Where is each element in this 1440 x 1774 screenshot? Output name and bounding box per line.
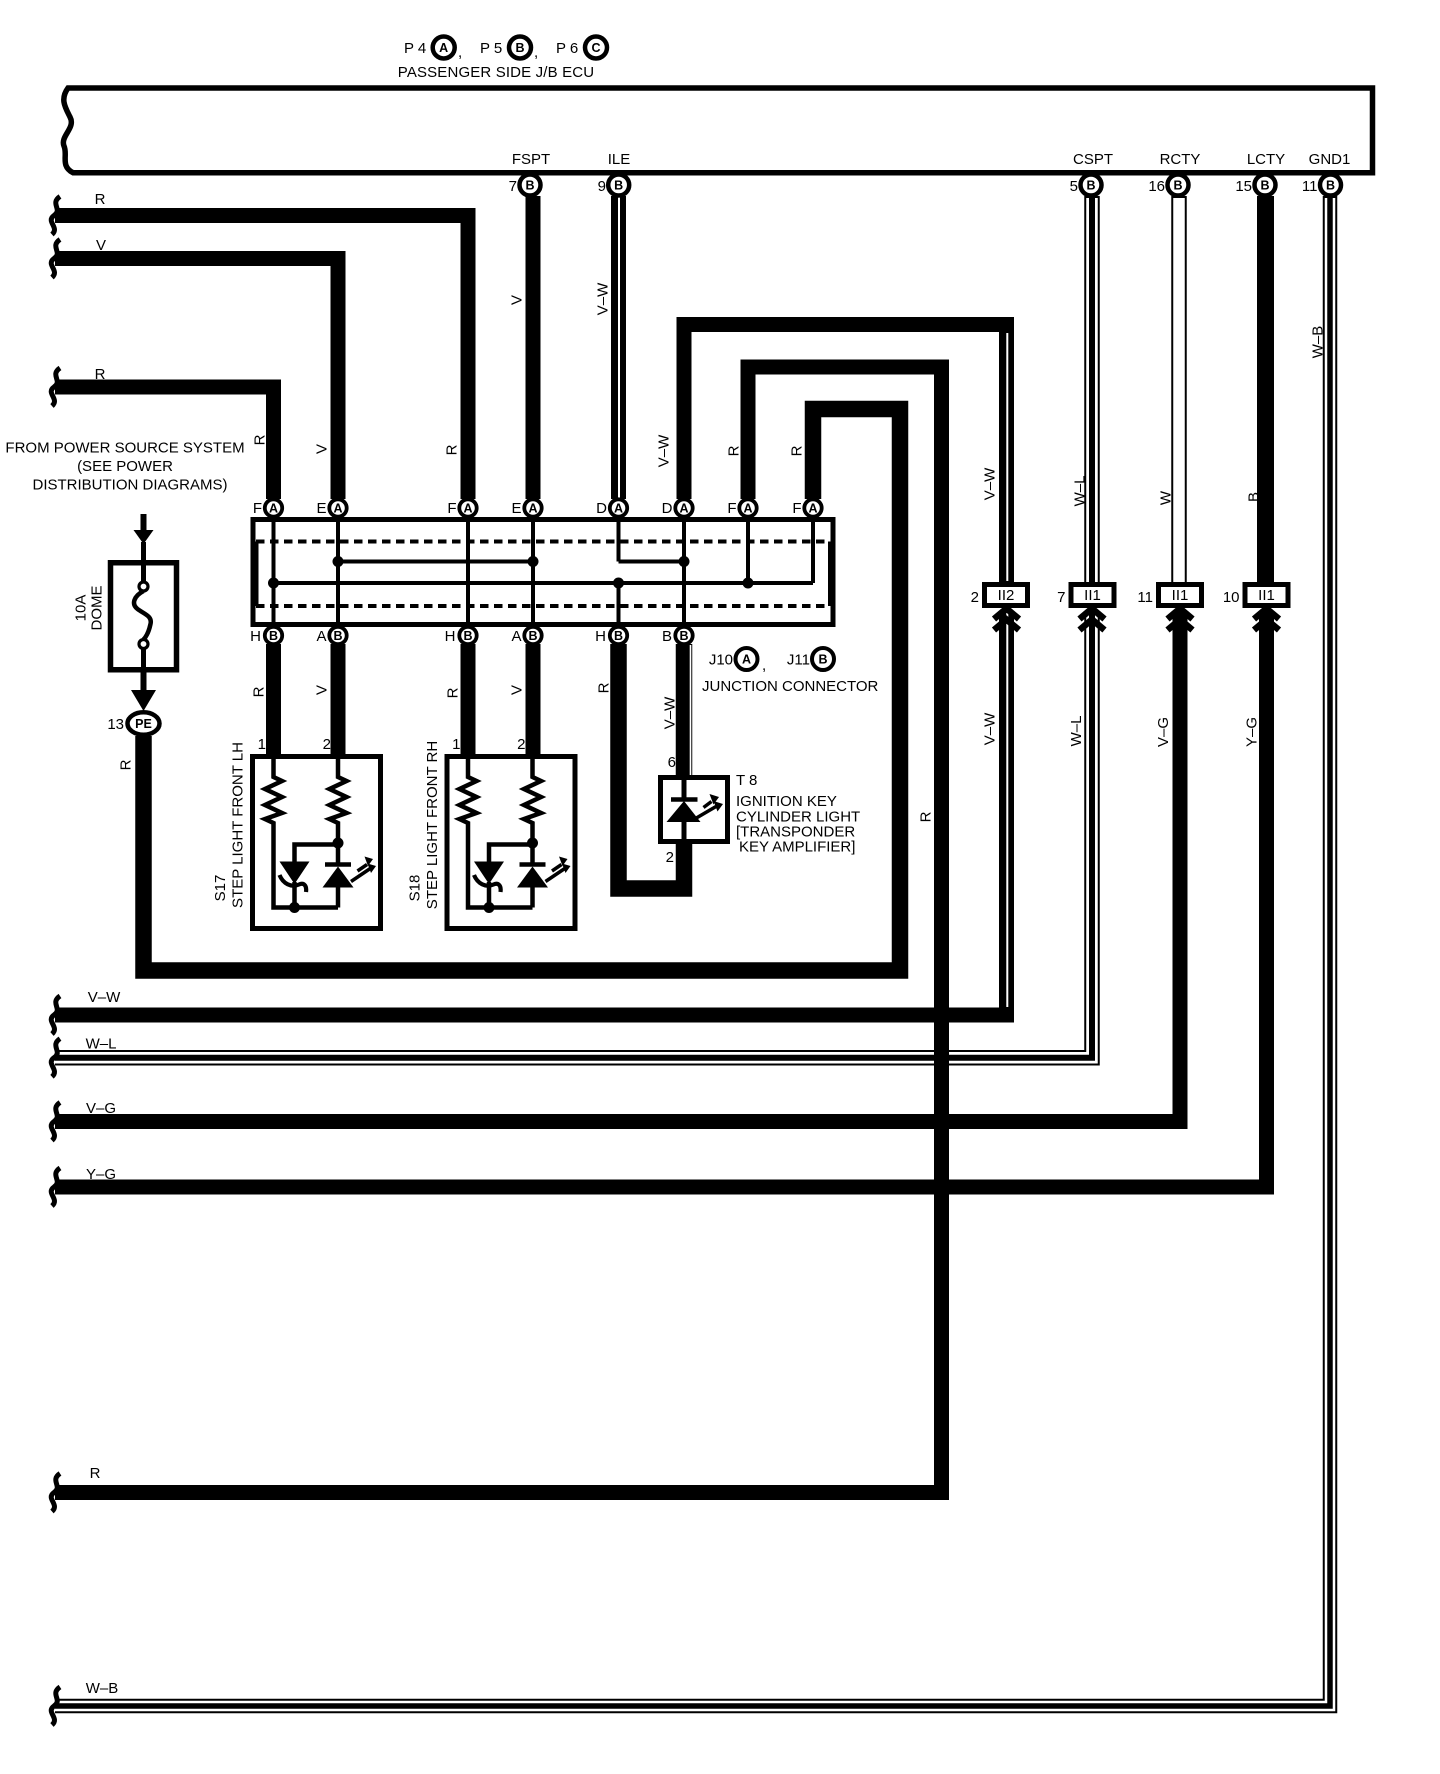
svg-text:B: B	[1260, 179, 1269, 193]
connector II2 (to 2)	[985, 585, 1028, 631]
wire R from junction block pin H(B) x=468 to S18 pin 1	[461, 644, 476, 756]
svg-text:A: A	[743, 502, 752, 516]
svg-text:,: ,	[762, 657, 766, 674]
junction connector circles J10(A) J11(B)	[736, 648, 835, 670]
rotated wire color labels	[118, 282, 1327, 823]
wire B from ECU pin LCTY 15(B) down to connector II1	[1257, 196, 1274, 582]
svg-text:E: E	[511, 500, 521, 517]
junction dots inside block	[268, 556, 754, 589]
svg-text:JUNCTION CONNECTOR: JUNCTION CONNECTOR	[702, 678, 879, 695]
svg-text:A: A	[333, 502, 342, 516]
svg-text:V: V	[314, 444, 331, 454]
svg-text:R: R	[252, 434, 269, 445]
wire R from junction block pin F(A) x=748 up over down to bottom break	[55, 367, 942, 1493]
svg-text:A: A	[808, 502, 817, 516]
svg-text:F: F	[792, 500, 801, 517]
svg-text:W: W	[1158, 490, 1175, 505]
S18 STEP LIGHT FRONT RH label	[407, 741, 442, 909]
wire W-L from connector II1 down and left to break (lower segment)	[55, 612, 1092, 1058]
svg-text:V–G: V–G	[1155, 717, 1172, 747]
svg-text:A: A	[269, 502, 278, 516]
svg-text:B: B	[818, 653, 827, 667]
svg-text:V: V	[96, 237, 106, 254]
svg-text:T 8: T 8	[736, 772, 757, 789]
wire V-G from connector II1 down and left to break	[55, 612, 1180, 1122]
svg-text:2: 2	[971, 589, 979, 606]
junction block (J/B) body	[253, 520, 833, 625]
svg-text:B: B	[614, 629, 623, 643]
svg-text:A: A	[511, 628, 521, 645]
svg-text:LCTY: LCTY	[1247, 151, 1285, 168]
svg-text:10: 10	[1223, 589, 1240, 606]
svg-text:II1: II1	[1084, 587, 1101, 604]
svg-text:5: 5	[1070, 178, 1078, 195]
svg-text:A: A	[528, 502, 537, 516]
svg-text:ILE: ILE	[608, 151, 631, 168]
junction block internal wiring	[274, 519, 814, 625]
svg-text:R: R	[95, 191, 106, 208]
svg-text:R: R	[596, 682, 613, 693]
ECU pin numbers and letters	[509, 178, 1318, 195]
svg-text:II1: II1	[1172, 587, 1189, 604]
break symbol on wire R (second)	[51, 368, 60, 406]
break symbol on wire R (bottom)	[51, 1474, 60, 1512]
wire Y-G from connector II1 down and left to break	[55, 612, 1267, 1187]
svg-text:S18: S18	[407, 875, 424, 902]
wire R from junction block pin H(B) x=273.5 to S17 pin 1	[266, 644, 281, 756]
ECU pin circles 7(B) 9(B) 5(B) 16(B) 15(B) 11(B)	[520, 175, 1342, 196]
svg-text:11: 11	[1137, 589, 1153, 606]
svg-text:F: F	[253, 500, 262, 517]
svg-text:V: V	[509, 295, 526, 305]
svg-text:B: B	[662, 628, 672, 645]
wire V from left break to junction block pin E(A) x=338	[55, 259, 338, 500]
svg-text:B: B	[515, 41, 524, 55]
junction block pin letters (bottom)	[250, 628, 672, 645]
svg-text:B: B	[269, 629, 278, 643]
svg-text:9: 9	[598, 178, 606, 195]
svg-text:V–G: V–G	[86, 1100, 116, 1117]
svg-text:7: 7	[509, 178, 517, 195]
wire R from junction block pin F(A) x=813 up over and down to fuse/13(PE)	[144, 409, 901, 971]
svg-text:IGNITION KEY: IGNITION KEY	[736, 793, 837, 810]
svg-text:F: F	[727, 500, 736, 517]
svg-text:B: B	[528, 629, 537, 643]
svg-text:DISTRIBUTION DIAGRAMS): DISTRIBUTION DIAGRAMS)	[32, 477, 227, 494]
svg-text:D: D	[596, 500, 607, 517]
svg-text:CSPT: CSPT	[1073, 151, 1113, 168]
step light front RH S18	[447, 757, 575, 929]
svg-text:STEP LIGHT FRONT RH: STEP LIGHT FRONT RH	[424, 741, 441, 909]
svg-text:B: B	[679, 629, 688, 643]
connector II1 (to 7)	[1071, 585, 1114, 631]
break symbol on wire V-G	[51, 1103, 60, 1141]
wire V-W from ECU pin ILE 9(B) to junction block pin D(A) x=618.5	[611, 196, 627, 499]
svg-text:B: B	[463, 629, 472, 643]
svg-text:,: ,	[458, 44, 462, 61]
svg-text:A: A	[679, 502, 688, 516]
svg-text:V–W: V–W	[595, 282, 612, 315]
connector II1 (to 11)	[1159, 585, 1202, 631]
svg-text:PE: PE	[135, 717, 152, 731]
J10(A), J11(B) JUNCTION CONNECTOR	[702, 652, 879, 696]
ignition key cylinder light T8	[661, 778, 728, 842]
svg-text:15: 15	[1235, 178, 1252, 195]
svg-text:1: 1	[258, 736, 266, 753]
svg-text:B: B	[525, 179, 534, 193]
svg-text:R: R	[251, 686, 268, 697]
svg-text:W–B: W–B	[86, 1680, 119, 1697]
svg-text:Y–G: Y–G	[86, 1166, 116, 1183]
svg-text:16: 16	[1148, 178, 1165, 195]
svg-text:V–W: V–W	[982, 467, 999, 500]
svg-text:2: 2	[517, 736, 525, 753]
svg-text:V–W: V–W	[656, 434, 673, 467]
svg-text:D: D	[662, 500, 673, 517]
svg-text:R: R	[444, 444, 461, 455]
wire W from ECU pin RCTY 16(B) down to connector II1	[1171, 196, 1187, 582]
horizontal wire color labels (left)	[86, 191, 122, 1697]
svg-text:A: A	[742, 653, 751, 667]
svg-text:7: 7	[1057, 589, 1065, 606]
junction block bottom pins H(B) A(B) H(B) A(B) H(B) B(B)	[265, 627, 693, 644]
wire V from junction block pin A(B) x=533 to S18 pin 2	[526, 644, 541, 756]
wire V-W from junction block pin D(A) x=684 up over and down to connector II2	[684, 325, 1007, 583]
svg-text:H: H	[595, 628, 606, 645]
svg-text:2: 2	[323, 736, 331, 753]
svg-text:,: ,	[534, 44, 538, 61]
wire V from ECU pin FSPT 7(B) to junction block pin E(A) x=533	[526, 196, 541, 499]
svg-text:F: F	[447, 500, 456, 517]
svg-text:W–L: W–L	[1068, 716, 1085, 747]
svg-text:FSPT: FSPT	[512, 151, 550, 168]
svg-text:II2: II2	[998, 587, 1015, 604]
break symbol on wire R (top)	[51, 197, 60, 235]
svg-text:II1: II1	[1258, 587, 1275, 604]
wire R from left break to junction block pin F(A) x=468	[55, 216, 468, 500]
svg-text:V–W: V–W	[88, 989, 121, 1006]
svg-text:R: R	[918, 811, 935, 822]
break symbol on wire V-W	[51, 996, 60, 1034]
svg-text:H: H	[445, 628, 456, 645]
svg-text:RCTY: RCTY	[1160, 151, 1201, 168]
svg-text:R: R	[789, 445, 806, 456]
svg-text:W–L: W–L	[86, 1036, 117, 1053]
svg-text:B: B	[1173, 179, 1182, 193]
svg-text:GND1: GND1	[1309, 151, 1351, 168]
svg-text:STEP LIGHT FRONT LH: STEP LIGHT FRONT LH	[230, 742, 247, 908]
svg-text:P 5: P 5	[480, 40, 502, 57]
svg-text:P 6: P 6	[556, 40, 578, 57]
svg-text:11: 11	[1302, 178, 1318, 195]
break symbol on wire Y-G	[51, 1168, 60, 1206]
component pin numbers	[258, 736, 676, 866]
wire W-L from ECU pin CSPT 5(B) down to connector II1 (upper segment)	[1084, 196, 1100, 582]
header text P4(A), P5(B), P6(C)	[404, 40, 578, 61]
svg-text:PASSENGER SIDE J/B ECU: PASSENGER SIDE J/B ECU	[398, 64, 594, 81]
S17 STEP LIGHT FRONT LH label	[212, 742, 247, 908]
svg-text:6: 6	[668, 754, 676, 771]
svg-text:B: B	[1326, 179, 1335, 193]
svg-text:V–W: V–W	[982, 712, 999, 745]
svg-text:DOME: DOME	[89, 586, 106, 631]
ECU block: PASSENGER SIDE J/B ECU	[63, 88, 1372, 173]
step light front LH S17	[253, 757, 381, 929]
svg-text:V: V	[314, 685, 331, 695]
svg-text:E: E	[316, 500, 326, 517]
wire W-B from ECU pin GND1 11(B) down and left to break	[55, 196, 1330, 1706]
header connector circles P4(A) P5(B) P6(C)	[433, 37, 607, 59]
svg-text:R: R	[445, 687, 462, 698]
svg-text:KEY AMPLIFIER]: KEY AMPLIFIER]	[739, 839, 855, 856]
svg-text:C: C	[591, 41, 600, 55]
svg-text:1: 1	[452, 736, 460, 753]
ECU pin name labels	[512, 151, 1351, 168]
wire V-W from junction block pin B(B) x=684 down to T8 pin 6	[684, 644, 691, 777]
break symbol on wire W-B	[51, 1687, 60, 1725]
connector pin 13(PE)	[128, 712, 160, 734]
svg-text:H: H	[250, 628, 261, 645]
fuse 10A DOME	[111, 514, 177, 711]
svg-text:Y–G: Y–G	[1244, 717, 1261, 747]
break symbol on wire V	[51, 240, 60, 278]
wire R from junction block pin H(B) x=618.5 down, right, up to T8 pin 2	[619, 644, 685, 889]
svg-text:B: B	[333, 629, 342, 643]
FROM POWER SOURCE SYSTEM note	[5, 440, 244, 494]
svg-text:(SEE POWER: (SEE POWER	[77, 458, 173, 475]
svg-text:A: A	[316, 628, 326, 645]
svg-text:V–W: V–W	[662, 696, 679, 729]
junction block top pins F(A) E(A) F(A) E(A) D(A) D(A) F(A) F(A)	[265, 499, 822, 516]
svg-text:B: B	[1246, 492, 1263, 502]
svg-text:FROM POWER SOURCE SYSTEM: FROM POWER SOURCE SYSTEM	[5, 440, 244, 457]
svg-text:R: R	[95, 366, 106, 383]
junction block pin letters (top)	[253, 500, 802, 517]
svg-text:A: A	[463, 502, 472, 516]
svg-text:A: A	[439, 41, 448, 55]
svg-text:W–L: W–L	[1072, 476, 1089, 507]
svg-text:R: R	[726, 445, 743, 456]
svg-text:13: 13	[107, 716, 124, 733]
wire V from junction block pin A(B) x=338 to S17 pin 2	[331, 644, 346, 756]
svg-text:S17: S17	[212, 875, 229, 902]
svg-text:P 4: P 4	[404, 40, 426, 57]
svg-text:R: R	[90, 1465, 101, 1482]
svg-text:V: V	[509, 685, 526, 695]
svg-text:2: 2	[666, 849, 674, 866]
svg-text:A: A	[614, 502, 623, 516]
svg-text:R: R	[118, 759, 135, 770]
svg-text:W–B: W–B	[1310, 326, 1327, 359]
connector II1 (to 10)	[1245, 585, 1288, 631]
wire V-W from left break to connector II2 (bottom segment)	[55, 612, 1007, 1015]
wire R from left break to junction block pin F(A) x=273.5	[55, 387, 274, 499]
svg-text:B: B	[614, 179, 623, 193]
svg-text:J10: J10	[709, 652, 733, 669]
svg-text:J11: J11	[787, 652, 810, 669]
svg-text:10A: 10A	[73, 595, 90, 622]
svg-text:B: B	[1086, 179, 1095, 193]
break symbol on wire W-L	[51, 1039, 60, 1077]
T8 IGNITION KEY CYLINDER LIGHT label	[736, 772, 860, 856]
connector II2/II1 box texts and numbers	[998, 587, 1275, 604]
